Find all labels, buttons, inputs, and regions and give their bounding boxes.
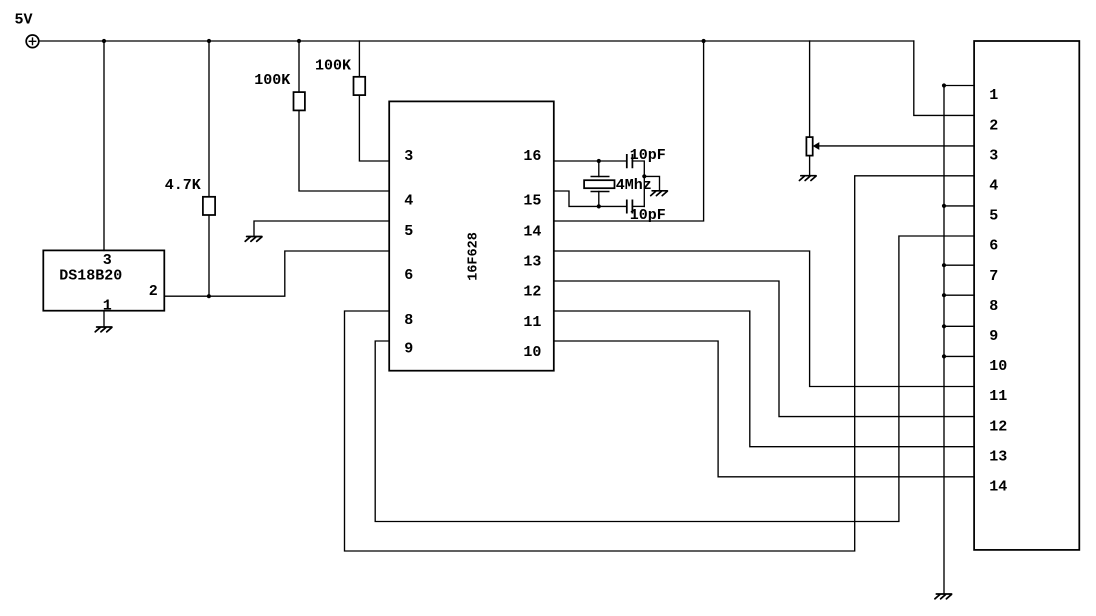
resistor R2 100K body	[294, 92, 305, 110]
svg-text:10: 10	[523, 344, 541, 361]
wire 100K R3 bottom lead to chip pin3	[359, 95, 389, 161]
wire 5V rail to LCD pin2	[914, 41, 974, 115]
svg-text:1: 1	[103, 297, 112, 314]
resistor R1 4.7K body	[203, 197, 215, 215]
junction node bus pin5	[942, 204, 946, 208]
svg-text:8: 8	[989, 298, 998, 315]
power source plus sign	[29, 37, 37, 45]
ground crystal	[651, 191, 668, 196]
wire chip pin8 to LCD pin4	[345, 176, 975, 551]
wire crystal bottom stub	[598, 192, 600, 207]
wire bus stub LCD pin7	[944, 264, 974, 266]
sensor U2 DS18B20 box	[43, 250, 164, 310]
potentiometer RV1 body	[806, 137, 812, 156]
wire ground bus vertical	[943, 86, 945, 594]
wire pot bottom lead to ground	[809, 156, 811, 176]
wire 100K R2 top lead	[298, 41, 300, 92]
junction node crystal bottom	[597, 204, 601, 208]
junction node rail-pin14	[702, 39, 706, 43]
svg-text:100K: 100K	[315, 57, 351, 74]
svg-text:4: 4	[989, 178, 998, 195]
wire chip pin16 to cap C1	[554, 160, 627, 162]
wire 100K R3 top lead	[358, 41, 360, 77]
svg-text:7: 7	[989, 268, 998, 285]
junction node bus pin8	[942, 293, 946, 297]
wire chip pin15 to cap C2	[554, 191, 627, 206]
svg-text:11: 11	[989, 388, 1007, 405]
wire crystal top stub	[598, 161, 600, 177]
svg-text:12: 12	[989, 418, 1007, 435]
wire cap C1 right to vertical	[632, 161, 644, 206]
wire top rail 5V	[39, 40, 914, 42]
svg-text:13: 13	[523, 253, 541, 270]
svg-text:9: 9	[989, 328, 998, 345]
junction node rail-DS18B20	[102, 39, 106, 43]
resistor R3 100K body	[354, 77, 366, 95]
svg-text:5: 5	[989, 208, 998, 225]
svg-text:DS18B20: DS18B20	[59, 267, 122, 284]
wire bus stub LCD pin9	[944, 325, 974, 327]
wire chip pin9 to LCD pin6	[375, 236, 974, 522]
ground below DS18B20	[95, 327, 112, 332]
wire chip pin12 to LCD pin12	[554, 281, 974, 417]
junction node bus pin9	[942, 324, 946, 328]
junction node DS18B20 pin2	[207, 294, 211, 298]
svg-text:6: 6	[989, 238, 998, 255]
svg-text:3: 3	[103, 252, 112, 269]
svg-text:14: 14	[989, 479, 1007, 496]
svg-text:4.7K: 4.7K	[165, 177, 201, 194]
crystal X1 top plate	[591, 176, 610, 178]
svg-text:12: 12	[523, 284, 541, 301]
wire chip pin11 to LCD pin13	[554, 311, 974, 447]
junction node bus pin10	[942, 354, 946, 358]
wire chip pin14 to 5V rail	[554, 41, 704, 221]
wire pot top lead	[809, 41, 811, 137]
svg-text:3: 3	[404, 148, 413, 165]
svg-text:11: 11	[523, 314, 541, 331]
svg-text:10pF: 10pF	[630, 147, 666, 164]
ground bus bottom	[935, 594, 952, 599]
svg-text:100K: 100K	[254, 72, 290, 89]
svg-text:16F628: 16F628	[466, 232, 481, 281]
wire bus stub LCD pin5	[944, 205, 974, 207]
ground potentiometer	[799, 176, 816, 181]
svg-text:14: 14	[523, 224, 541, 241]
svg-text:15: 15	[523, 192, 541, 209]
MCU U1 16F628 box	[389, 101, 554, 370]
svg-text:5: 5	[404, 223, 413, 240]
svg-text:13: 13	[989, 448, 1007, 465]
capacitor C1 plates 10pF	[627, 154, 633, 168]
capacitor C2 plates 10pF	[627, 200, 633, 214]
potentiometer wiper arrowhead	[813, 142, 820, 150]
wire chip pin5 to ground	[254, 221, 389, 236]
svg-text:4: 4	[404, 192, 413, 209]
wire bus stub LCD pin10	[944, 355, 974, 357]
junction node crystal top	[597, 159, 601, 163]
svg-text:16: 16	[523, 148, 541, 165]
svg-text:10pF: 10pF	[630, 207, 666, 224]
wire bus stub LCD pin1	[944, 85, 974, 87]
junction node rail-4.7K	[207, 39, 211, 43]
wire 100K R2 bottom lead to chip pin4	[299, 110, 389, 191]
svg-text:10: 10	[989, 358, 1007, 375]
wire chip pin13 to LCD pin11	[554, 251, 974, 387]
svg-text:8: 8	[404, 312, 413, 329]
wire pot wiper to LCD pin3	[819, 145, 974, 147]
svg-text:4Mhz: 4Mhz	[616, 177, 652, 194]
crystal X1 bottom plate	[591, 191, 610, 193]
junction node rail-100K	[297, 39, 301, 43]
power source 5V circle	[26, 35, 39, 48]
svg-text:9: 9	[404, 340, 413, 357]
wire cap C2 right plate lead	[632, 205, 644, 207]
junction node crystal ground	[642, 174, 646, 178]
wire DS18B20 pin1 to ground	[103, 311, 105, 327]
ground chip pin5	[245, 237, 262, 242]
svg-text:2: 2	[989, 117, 998, 134]
svg-text:3: 3	[989, 147, 998, 164]
wire 4.7K top lead	[208, 41, 210, 197]
wire DS18B20 pin3 drop	[103, 41, 105, 250]
svg-text:5V: 5V	[15, 12, 33, 29]
wire chip pin10 to LCD pin14	[554, 341, 974, 477]
wire bus stub LCD pin8	[944, 294, 974, 296]
junction node bus pin7	[942, 263, 946, 267]
wire DS18B20 pin2 to chip pin6	[164, 251, 389, 296]
svg-text:1: 1	[989, 87, 998, 104]
junction node bus pin1	[942, 83, 946, 87]
connector J1 LCD box	[974, 41, 1079, 550]
svg-text:2: 2	[149, 283, 158, 300]
svg-text:6: 6	[404, 267, 413, 284]
wire crystal ground branch	[644, 176, 659, 190]
wire 4.7K bottom lead	[208, 215, 210, 296]
crystal X1 body	[584, 180, 614, 188]
